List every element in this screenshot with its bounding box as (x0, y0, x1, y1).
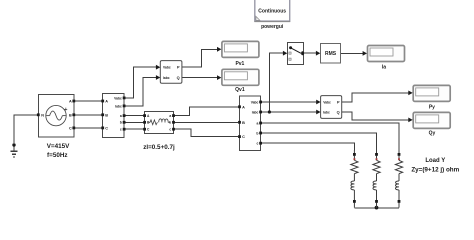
svg-text:a: a (169, 114, 171, 118)
svg-text:P: P (337, 100, 340, 105)
svg-text:B: B (242, 121, 245, 125)
svg-text:Qy: Qy (429, 130, 436, 136)
svg-text:RMS: RMS (325, 51, 337, 57)
svg-text:Vabc: Vabc (163, 66, 171, 70)
svg-text:B: B (105, 113, 108, 117)
svg-text:zl=0.5+0.7j: zl=0.5+0.7j (143, 144, 175, 151)
svg-text:C: C (242, 135, 245, 139)
svg-text:Vabc: Vabc (114, 96, 122, 100)
svg-text:c: c (257, 142, 259, 146)
svg-text:Vabc: Vabc (251, 100, 259, 104)
svg-text:C: C (105, 126, 108, 130)
svg-text:Continuous: Continuous (258, 9, 286, 15)
svg-text:b: b (120, 121, 122, 125)
svg-text:V=415V: V=415V (47, 143, 70, 150)
svg-text:A: A (242, 105, 245, 109)
svg-text:+: + (64, 107, 67, 113)
svg-text:C: C (69, 126, 72, 130)
svg-text:Zy=(9+12 j) ohm: Zy=(9+12 j) ohm (411, 167, 459, 174)
svg-text:c: c (169, 128, 171, 132)
svg-text:Q: Q (177, 75, 180, 80)
svg-text:Pv1: Pv1 (235, 61, 244, 67)
svg-text:a: a (120, 114, 122, 118)
svg-text:Vabc: Vabc (323, 100, 331, 104)
svg-text:A: A (69, 100, 72, 104)
svg-text:B: B (69, 113, 72, 117)
svg-text:Q: Q (337, 110, 340, 115)
svg-text:A: A (105, 100, 108, 104)
svg-text:Iabc: Iabc (163, 76, 170, 80)
svg-text:Py: Py (429, 105, 435, 111)
svg-text:f=50Hz: f=50Hz (47, 152, 67, 159)
svg-text:Qv1: Qv1 (235, 87, 245, 93)
svg-text:N: N (41, 113, 44, 117)
svg-text:a: a (257, 121, 259, 125)
svg-text:P: P (177, 65, 180, 70)
svg-text:powergui: powergui (261, 24, 284, 30)
svg-text:Load Y: Load Y (425, 158, 445, 164)
svg-text:c: c (120, 128, 122, 132)
svg-text:Iabc: Iabc (323, 110, 330, 114)
svg-text:b: b (256, 131, 258, 135)
svg-text:Iabc: Iabc (115, 104, 122, 108)
svg-text:Ia: Ia (382, 65, 386, 71)
svg-text:Iabc: Iabc (252, 110, 259, 114)
